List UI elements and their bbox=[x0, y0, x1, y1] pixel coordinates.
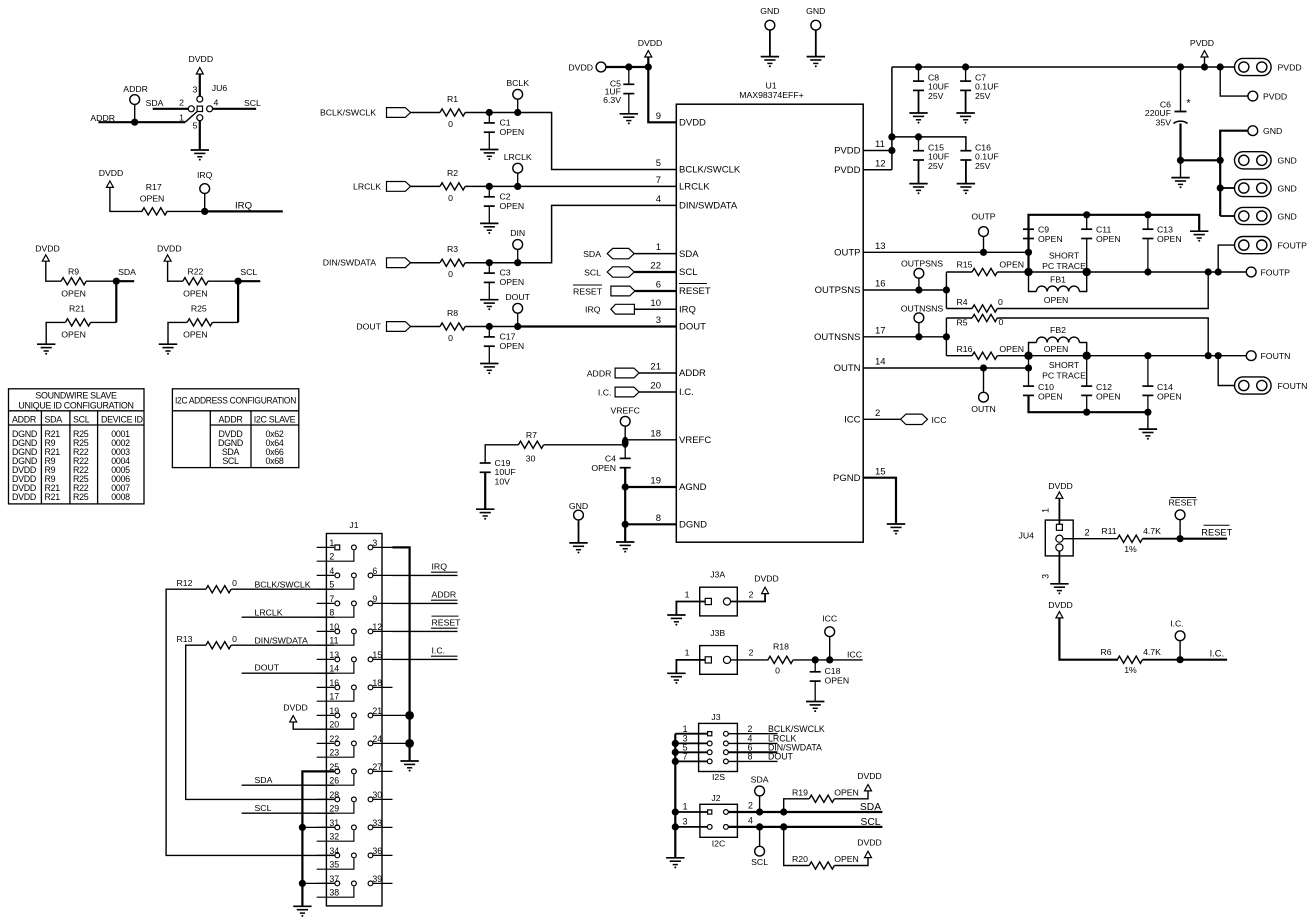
svg-text:BCLK/SWCLK: BCLK/SWCLK bbox=[255, 580, 311, 590]
junction VREFC bbox=[622, 437, 629, 448]
svg-text:SDA: SDA bbox=[860, 802, 881, 813]
svg-text:0: 0 bbox=[448, 119, 453, 129]
svg-text:OUTPSNS: OUTPSNS bbox=[901, 259, 943, 269]
junction DVDD arrow bbox=[645, 63, 652, 70]
wire SDA node down to R21 bbox=[115, 281, 117, 322]
svg-text:220UF: 220UF bbox=[1145, 108, 1171, 118]
ground (C6) bbox=[1180, 160, 1182, 177]
svg-text:1%: 1% bbox=[1124, 665, 1137, 675]
svg-text:C10: C10 bbox=[1038, 382, 1054, 392]
U1 left pin names bbox=[679, 118, 741, 531]
svg-text:13: 13 bbox=[329, 650, 339, 660]
ground (C7) bbox=[956, 112, 974, 114]
svg-text:OPEN: OPEN bbox=[1157, 234, 1182, 244]
junction J1 pin 24 bbox=[393, 742, 410, 744]
wire RESET net bbox=[1180, 538, 1227, 540]
J1 pins 28/29/30 bbox=[317, 790, 393, 814]
wire DVDD to R22 bbox=[168, 261, 183, 281]
svg-text:10: 10 bbox=[650, 298, 661, 309]
svg-text:IRQ: IRQ bbox=[235, 201, 252, 212]
junction OUTPSNS tp bbox=[915, 286, 922, 293]
svg-text:12: 12 bbox=[875, 158, 886, 169]
svg-text:11: 11 bbox=[329, 636, 338, 646]
ground (center test point) bbox=[569, 542, 587, 544]
svg-text:OPEN: OPEN bbox=[834, 788, 859, 798]
svg-text:I2C: I2C bbox=[712, 839, 726, 849]
svg-text:DVDD: DVDD bbox=[188, 54, 213, 64]
svg-text:OPEN: OPEN bbox=[1038, 234, 1063, 244]
junction FB1 right bbox=[1083, 268, 1091, 276]
junction C12 bottom bbox=[1083, 409, 1090, 416]
wire DIN/SWDATA to R3 bbox=[411, 262, 441, 264]
wire U1 pin 14 OUTN bbox=[863, 367, 1028, 369]
junction SDA tp bbox=[756, 808, 763, 815]
svg-text:I2C ADDRESS CONFIGURATION: I2C ADDRESS CONFIGURATION bbox=[175, 396, 296, 406]
junction FB1 left bbox=[1024, 268, 1032, 276]
junction R5 bottom bbox=[1205, 352, 1212, 359]
svg-text:DOUT: DOUT bbox=[505, 292, 530, 302]
wire R15 to FB1 node bbox=[997, 271, 1028, 273]
junction J2 pin 3 bbox=[672, 823, 679, 830]
svg-text:DVDD: DVDD bbox=[1048, 600, 1073, 610]
jumper JU6 bbox=[197, 106, 202, 111]
svg-text:15: 15 bbox=[875, 466, 886, 477]
svg-text:R12: R12 bbox=[177, 578, 193, 588]
svg-text:RESET: RESET bbox=[432, 617, 462, 627]
junction C14 bottom bbox=[1144, 409, 1151, 416]
ground (C4) bbox=[616, 541, 634, 543]
wire PVDD bus to pins 11/12 bbox=[891, 67, 893, 170]
svg-text:IRQ: IRQ bbox=[197, 170, 213, 180]
svg-text:C2: C2 bbox=[500, 191, 511, 201]
wire SDA to JU6 pin 2 bbox=[153, 108, 189, 110]
junction J1 pin 21 bbox=[393, 714, 410, 716]
svg-text:21: 21 bbox=[372, 706, 382, 716]
svg-text:25V: 25V bbox=[928, 91, 944, 101]
wire R8 to junctions bbox=[465, 326, 518, 328]
svg-text:30: 30 bbox=[372, 790, 382, 800]
svg-text:1: 1 bbox=[685, 648, 690, 658]
svg-text:8: 8 bbox=[748, 752, 753, 762]
svg-text:PVDD: PVDD bbox=[834, 146, 861, 157]
junction R4 top bbox=[1205, 268, 1212, 275]
svg-text:OPEN: OPEN bbox=[834, 854, 859, 864]
svg-text:R18: R18 bbox=[773, 642, 789, 652]
svg-text:R5: R5 bbox=[957, 317, 968, 327]
svg-text:LRCLK: LRCLK bbox=[504, 152, 532, 162]
junction C7 bbox=[962, 63, 969, 70]
wire JU4 pin 3 to ground bbox=[1058, 551, 1060, 584]
svg-text:4: 4 bbox=[748, 815, 753, 825]
svg-text:C17: C17 bbox=[500, 332, 516, 342]
ground (R21) bbox=[37, 343, 55, 345]
svg-text:DOUT: DOUT bbox=[356, 322, 381, 332]
svg-text:17: 17 bbox=[329, 692, 339, 702]
svg-text:I.C.: I.C. bbox=[1210, 649, 1224, 659]
svg-text:DEVICE ID: DEVICE ID bbox=[101, 414, 143, 424]
wire R5 to FOUTN row bbox=[997, 318, 1208, 356]
svg-text:DVDD: DVDD bbox=[12, 492, 36, 502]
wire C10/C12/C14 bottom bus bbox=[1029, 395, 1148, 412]
test point SCL (J2) bbox=[755, 846, 765, 856]
wire R21 to ground bbox=[91, 321, 117, 323]
junction OUTPSNS branch bbox=[943, 286, 950, 293]
svg-text:DIN/SWDATA: DIN/SWDATA bbox=[323, 258, 376, 268]
wire LRCLK to U1 pin 7 bbox=[518, 185, 677, 187]
J1 pins 13/14/15 bbox=[317, 650, 393, 674]
wire DVDD to R6 bbox=[1059, 618, 1118, 660]
ground (J2/J3 bus) bbox=[666, 857, 684, 859]
svg-text:FOUTN: FOUTN bbox=[1278, 381, 1308, 391]
output flag ICC bbox=[901, 414, 928, 424]
svg-text:BCLK: BCLK bbox=[506, 78, 529, 88]
svg-text:DGND: DGND bbox=[679, 520, 707, 531]
test point FOUTN bbox=[1246, 351, 1256, 361]
junction J3 pin 5 bbox=[672, 749, 679, 756]
svg-text:2: 2 bbox=[179, 98, 184, 108]
svg-text:22: 22 bbox=[329, 734, 339, 744]
svg-text:*: * bbox=[1186, 98, 1191, 110]
svg-text:8: 8 bbox=[656, 513, 661, 524]
wire R22 to SCL node bbox=[208, 280, 238, 282]
svg-text:I2C SLAVE: I2C SLAVE bbox=[254, 414, 296, 424]
ground (PGND) bbox=[887, 523, 905, 525]
J2 pins 3/4 bbox=[707, 825, 712, 830]
wire J1 pin 15 I.C. bbox=[393, 658, 458, 660]
ground (C19) bbox=[476, 508, 494, 510]
svg-text:R20: R20 bbox=[792, 854, 808, 864]
wire R13 to J1 pin 11 bbox=[231, 644, 334, 646]
svg-text:LRCLK: LRCLK bbox=[353, 181, 381, 191]
svg-text:5: 5 bbox=[329, 580, 334, 590]
svg-text:OUTP: OUTP bbox=[971, 212, 995, 222]
svg-text:0: 0 bbox=[232, 634, 237, 644]
svg-text:36: 36 bbox=[372, 846, 382, 856]
svg-text:22: 22 bbox=[650, 261, 661, 272]
wire DVDD to R17 bbox=[110, 187, 143, 211]
svg-text:R8: R8 bbox=[447, 308, 458, 318]
junction OUTNSNS branch bbox=[943, 333, 950, 340]
svg-text:24: 24 bbox=[372, 734, 382, 744]
svg-text:R25: R25 bbox=[73, 492, 89, 502]
test point GND (stack) bbox=[1248, 126, 1258, 136]
svg-text:JU6: JU6 bbox=[212, 83, 228, 93]
ground (JU6 pin 5) bbox=[191, 149, 209, 151]
svg-text:BCLK/SWCLK: BCLK/SWCLK bbox=[679, 165, 741, 176]
connector GND 1 (oval) bbox=[1235, 152, 1272, 169]
svg-text:1: 1 bbox=[683, 724, 688, 734]
svg-text:VREFC: VREFC bbox=[610, 406, 639, 416]
svg-text:28: 28 bbox=[329, 790, 339, 800]
svg-text:0: 0 bbox=[998, 297, 1003, 307]
ground (J1 right bus) bbox=[400, 760, 418, 762]
svg-text:C12: C12 bbox=[1096, 382, 1112, 392]
wire J2 pin 4 SCL net bbox=[728, 826, 882, 828]
svg-text:R6: R6 bbox=[1100, 647, 1111, 657]
svg-text:JU4: JU4 bbox=[1019, 531, 1035, 541]
wire SDA stub bbox=[116, 280, 134, 282]
wire J1 pin 9 ADDR bbox=[393, 602, 458, 604]
svg-text:PVDD: PVDD bbox=[1190, 38, 1214, 48]
svg-text:U1: U1 bbox=[765, 81, 776, 91]
svg-text:C4: C4 bbox=[605, 454, 616, 464]
svg-text:SHORT: SHORT bbox=[1049, 360, 1080, 370]
wire BCLK to U1 pin 5 bbox=[518, 113, 677, 170]
svg-text:30: 30 bbox=[526, 454, 536, 464]
wire U1 pin 15 PGND bbox=[863, 478, 896, 524]
junction C18 bbox=[812, 656, 819, 663]
ground (C1) bbox=[480, 149, 498, 151]
junction IRQ bbox=[201, 208, 208, 215]
wire J3 left bus bbox=[674, 734, 676, 858]
svg-text:R19: R19 bbox=[792, 788, 808, 798]
junction PVDD connector bbox=[1217, 63, 1224, 70]
J2 pins 1/2 bbox=[708, 810, 712, 814]
J3 pins 7/8 bbox=[707, 759, 712, 764]
svg-text:ICC: ICC bbox=[932, 415, 947, 425]
junction J3 pin 7 bbox=[672, 758, 679, 765]
svg-text:UNIQUE ID CONFIGURATION: UNIQUE ID CONFIGURATION bbox=[18, 401, 133, 411]
junction RESET bbox=[1177, 535, 1184, 542]
svg-text:OPEN: OPEN bbox=[1157, 392, 1182, 402]
svg-text:I.C.: I.C. bbox=[432, 645, 446, 655]
junction J1 pin 31 bbox=[302, 826, 334, 828]
svg-text:DVDD: DVDD bbox=[857, 838, 882, 848]
svg-text:IRQ: IRQ bbox=[432, 561, 448, 571]
svg-text:SDA: SDA bbox=[255, 775, 273, 785]
wire R25 to ground bbox=[212, 321, 238, 323]
svg-text:R2: R2 bbox=[447, 168, 458, 178]
svg-text:2: 2 bbox=[329, 552, 334, 562]
svg-text:J2: J2 bbox=[711, 793, 720, 803]
svg-text:OUTPSNS: OUTPSNS bbox=[815, 285, 861, 296]
svg-text:37: 37 bbox=[329, 874, 339, 884]
svg-text:ADDR: ADDR bbox=[12, 414, 36, 424]
junction pin 11 bbox=[888, 147, 895, 154]
svg-text:ICC: ICC bbox=[822, 614, 837, 624]
wire LRCLK to J1 pin 8 bbox=[242, 616, 335, 618]
wire LRCLK to R2 bbox=[411, 185, 441, 187]
junction GND oval 2 bbox=[1217, 184, 1224, 191]
svg-text:9: 9 bbox=[372, 594, 377, 604]
junction BCLK bbox=[514, 109, 521, 116]
junction GND oval 1 bbox=[1217, 157, 1224, 164]
svg-text:SCL: SCL bbox=[73, 414, 90, 424]
junction AGND bbox=[622, 483, 629, 490]
svg-text:ADDR: ADDR bbox=[432, 589, 457, 599]
wire C6 to GND stack bbox=[1181, 159, 1221, 161]
svg-text:0: 0 bbox=[448, 193, 453, 203]
svg-text:35: 35 bbox=[329, 860, 339, 870]
svg-text:19: 19 bbox=[650, 476, 661, 487]
svg-text:SCL: SCL bbox=[584, 267, 601, 277]
wire J1 pin 12 RESET bbox=[393, 630, 458, 632]
svg-text:SCL: SCL bbox=[860, 817, 880, 828]
J1 pins 7/8/9 bbox=[317, 594, 393, 618]
J1 pins 16/17/18 bbox=[317, 678, 393, 702]
wire R4 to FOUTP row bbox=[997, 272, 1208, 309]
ground (J3A) bbox=[667, 614, 685, 616]
svg-text:AGND: AGND bbox=[679, 482, 707, 493]
svg-text:C13: C13 bbox=[1157, 225, 1173, 235]
svg-text:RESET: RESET bbox=[1169, 498, 1199, 508]
svg-text:ICC: ICC bbox=[844, 415, 861, 426]
ground (JU4) bbox=[1050, 583, 1068, 585]
svg-text:32: 32 bbox=[329, 832, 339, 842]
svg-text:OPEN: OPEN bbox=[61, 289, 86, 299]
wire J1 pin 6 IRQ bbox=[393, 574, 458, 576]
svg-text:DVDD: DVDD bbox=[638, 38, 663, 48]
wire DVDD node bbox=[606, 66, 648, 68]
junction ADDR bbox=[131, 119, 138, 126]
svg-text:DVDD: DVDD bbox=[99, 168, 124, 178]
wire U1 pin 13 OUTP bbox=[863, 251, 1028, 253]
svg-text:PVDD: PVDD bbox=[1263, 91, 1287, 101]
junction FB2 left bbox=[1024, 352, 1032, 360]
svg-text:J3: J3 bbox=[711, 712, 720, 722]
svg-text:RESET: RESET bbox=[573, 286, 603, 296]
svg-text:0x68: 0x68 bbox=[265, 456, 283, 466]
U1 RESET overline bbox=[679, 283, 707, 285]
svg-text:33: 33 bbox=[372, 818, 382, 828]
svg-text:R13: R13 bbox=[177, 634, 193, 644]
svg-text:DVDD: DVDD bbox=[157, 244, 182, 254]
svg-text:FB2: FB2 bbox=[1050, 325, 1066, 335]
wire OUTN row bbox=[1029, 355, 1247, 357]
wire C4 to grounds bbox=[624, 468, 626, 542]
svg-text:I.C.: I.C. bbox=[598, 387, 612, 397]
svg-text:2: 2 bbox=[875, 408, 880, 419]
wire C9/C11/C13 top bus bbox=[1029, 215, 1200, 272]
svg-text:0: 0 bbox=[775, 666, 780, 676]
svg-text:C3: C3 bbox=[500, 268, 511, 278]
svg-text:OPEN: OPEN bbox=[140, 194, 165, 204]
wire R2 to junctions bbox=[465, 185, 518, 187]
wire VREFC to U1 pin 18 bbox=[625, 439, 676, 441]
svg-text:R16: R16 bbox=[957, 344, 973, 354]
svg-text:2: 2 bbox=[1084, 528, 1089, 539]
junction J3 pin 3 bbox=[672, 740, 679, 747]
wire J1 pin 25 ground bus bbox=[302, 771, 334, 906]
svg-text:J3B: J3B bbox=[710, 628, 725, 638]
wire DVDD to J1 pin 20 bbox=[293, 722, 354, 729]
wire R11 to RESET node bbox=[1143, 538, 1181, 540]
svg-text:R21: R21 bbox=[45, 492, 61, 502]
junction C11 top bbox=[1083, 211, 1090, 218]
svg-text:2: 2 bbox=[748, 801, 753, 811]
svg-text:0: 0 bbox=[448, 269, 453, 279]
svg-text:20: 20 bbox=[650, 381, 661, 392]
ground (top bus) bbox=[1190, 230, 1208, 232]
svg-text:LRCLK: LRCLK bbox=[679, 182, 710, 193]
junction FOUTN oval bbox=[1215, 352, 1222, 359]
svg-text:4: 4 bbox=[329, 566, 334, 576]
junction J1 pin 37 bbox=[302, 882, 334, 884]
svg-text:6.3V: 6.3V bbox=[603, 95, 621, 105]
svg-text:DVDD: DVDD bbox=[679, 118, 706, 129]
svg-text:SDA: SDA bbox=[583, 249, 601, 259]
wire SCL node down to R25 bbox=[237, 281, 239, 322]
wire R7 to VREFC bbox=[544, 444, 626, 446]
svg-text:OUTN: OUTN bbox=[834, 363, 861, 374]
J1 pins 4/5/6 bbox=[317, 566, 393, 590]
svg-text:9: 9 bbox=[656, 111, 661, 122]
svg-text:SCL: SCL bbox=[751, 857, 768, 867]
svg-text:C18: C18 bbox=[825, 666, 841, 676]
svg-text:VREFC: VREFC bbox=[679, 435, 711, 446]
svg-text:I.C.: I.C. bbox=[1170, 619, 1184, 629]
svg-text:DIN/SWDATA: DIN/SWDATA bbox=[255, 636, 308, 646]
svg-text:J3A: J3A bbox=[710, 570, 725, 580]
svg-text:PVDD: PVDD bbox=[1278, 63, 1302, 73]
svg-text:BCLK/SWCLK: BCLK/SWCLK bbox=[320, 108, 376, 118]
svg-text:19: 19 bbox=[329, 706, 339, 716]
junction C8 bbox=[915, 63, 922, 70]
J1 pins 1/2/3 bbox=[317, 538, 393, 562]
svg-text:PC TRACE: PC TRACE bbox=[1042, 261, 1086, 271]
svg-text:4.7K: 4.7K bbox=[1143, 647, 1161, 657]
svg-text:MAX98374EFF+: MAX98374EFF+ bbox=[739, 90, 803, 100]
junction C1 node bbox=[486, 109, 493, 116]
svg-text:PVDD: PVDD bbox=[834, 165, 861, 176]
svg-text:SHORT: SHORT bbox=[1049, 250, 1080, 260]
svg-text:0008: 0008 bbox=[111, 492, 130, 502]
svg-text:OPEN: OPEN bbox=[500, 341, 525, 351]
svg-text:OPEN: OPEN bbox=[999, 260, 1024, 270]
wire R18 to ICC node bbox=[793, 659, 863, 661]
wire R16 to FB2 node bbox=[997, 355, 1028, 357]
ground (C8) bbox=[909, 112, 927, 114]
wire I.C. net bbox=[1180, 659, 1227, 661]
ground (bottom bus) bbox=[1147, 412, 1149, 429]
svg-text:R9: R9 bbox=[68, 267, 79, 277]
wire R17 to IRQ bbox=[167, 210, 205, 212]
svg-text:GND: GND bbox=[1278, 183, 1297, 193]
svg-text:18: 18 bbox=[650, 428, 661, 439]
ground (right test point) bbox=[807, 56, 825, 58]
junction SCL tp bbox=[756, 823, 763, 830]
svg-text:OPEN: OPEN bbox=[825, 676, 850, 686]
junction R19 bbox=[780, 808, 787, 815]
wire U1 pin 16 OUTPSNS bbox=[863, 289, 946, 291]
wire DOUT to R8 bbox=[411, 326, 441, 328]
svg-text:SCL: SCL bbox=[244, 98, 261, 108]
svg-text:29: 29 bbox=[329, 804, 339, 814]
ground (C3) bbox=[480, 299, 498, 301]
svg-text:13: 13 bbox=[875, 241, 886, 252]
junction FB2 right bbox=[1083, 352, 1091, 360]
ground (C16) bbox=[957, 183, 975, 185]
svg-text:2: 2 bbox=[748, 724, 753, 734]
svg-text:12: 12 bbox=[372, 622, 382, 632]
wire R12 to J1 pin 5 bbox=[231, 588, 334, 590]
wire R3 to junctions bbox=[465, 262, 518, 264]
junction SCL bbox=[235, 278, 242, 285]
svg-text:SCL: SCL bbox=[255, 803, 272, 813]
wire R6 to I.C. node bbox=[1143, 659, 1181, 661]
svg-text:C14: C14 bbox=[1157, 382, 1173, 392]
connector GND 2 (oval) bbox=[1235, 179, 1272, 196]
wire GND stack vertical bbox=[1220, 131, 1248, 216]
wire DIN to U1 pin 4 bbox=[518, 205, 677, 262]
svg-text:3: 3 bbox=[193, 85, 198, 95]
junction PVDD arrow bbox=[1201, 63, 1208, 70]
svg-text:OPEN: OPEN bbox=[1044, 344, 1069, 354]
ground (left test point) bbox=[761, 56, 779, 58]
svg-text:OUTP: OUTP bbox=[834, 248, 860, 259]
wire DGND to U1 pin 8 bbox=[625, 523, 676, 525]
junction C15 branch bbox=[888, 133, 895, 140]
